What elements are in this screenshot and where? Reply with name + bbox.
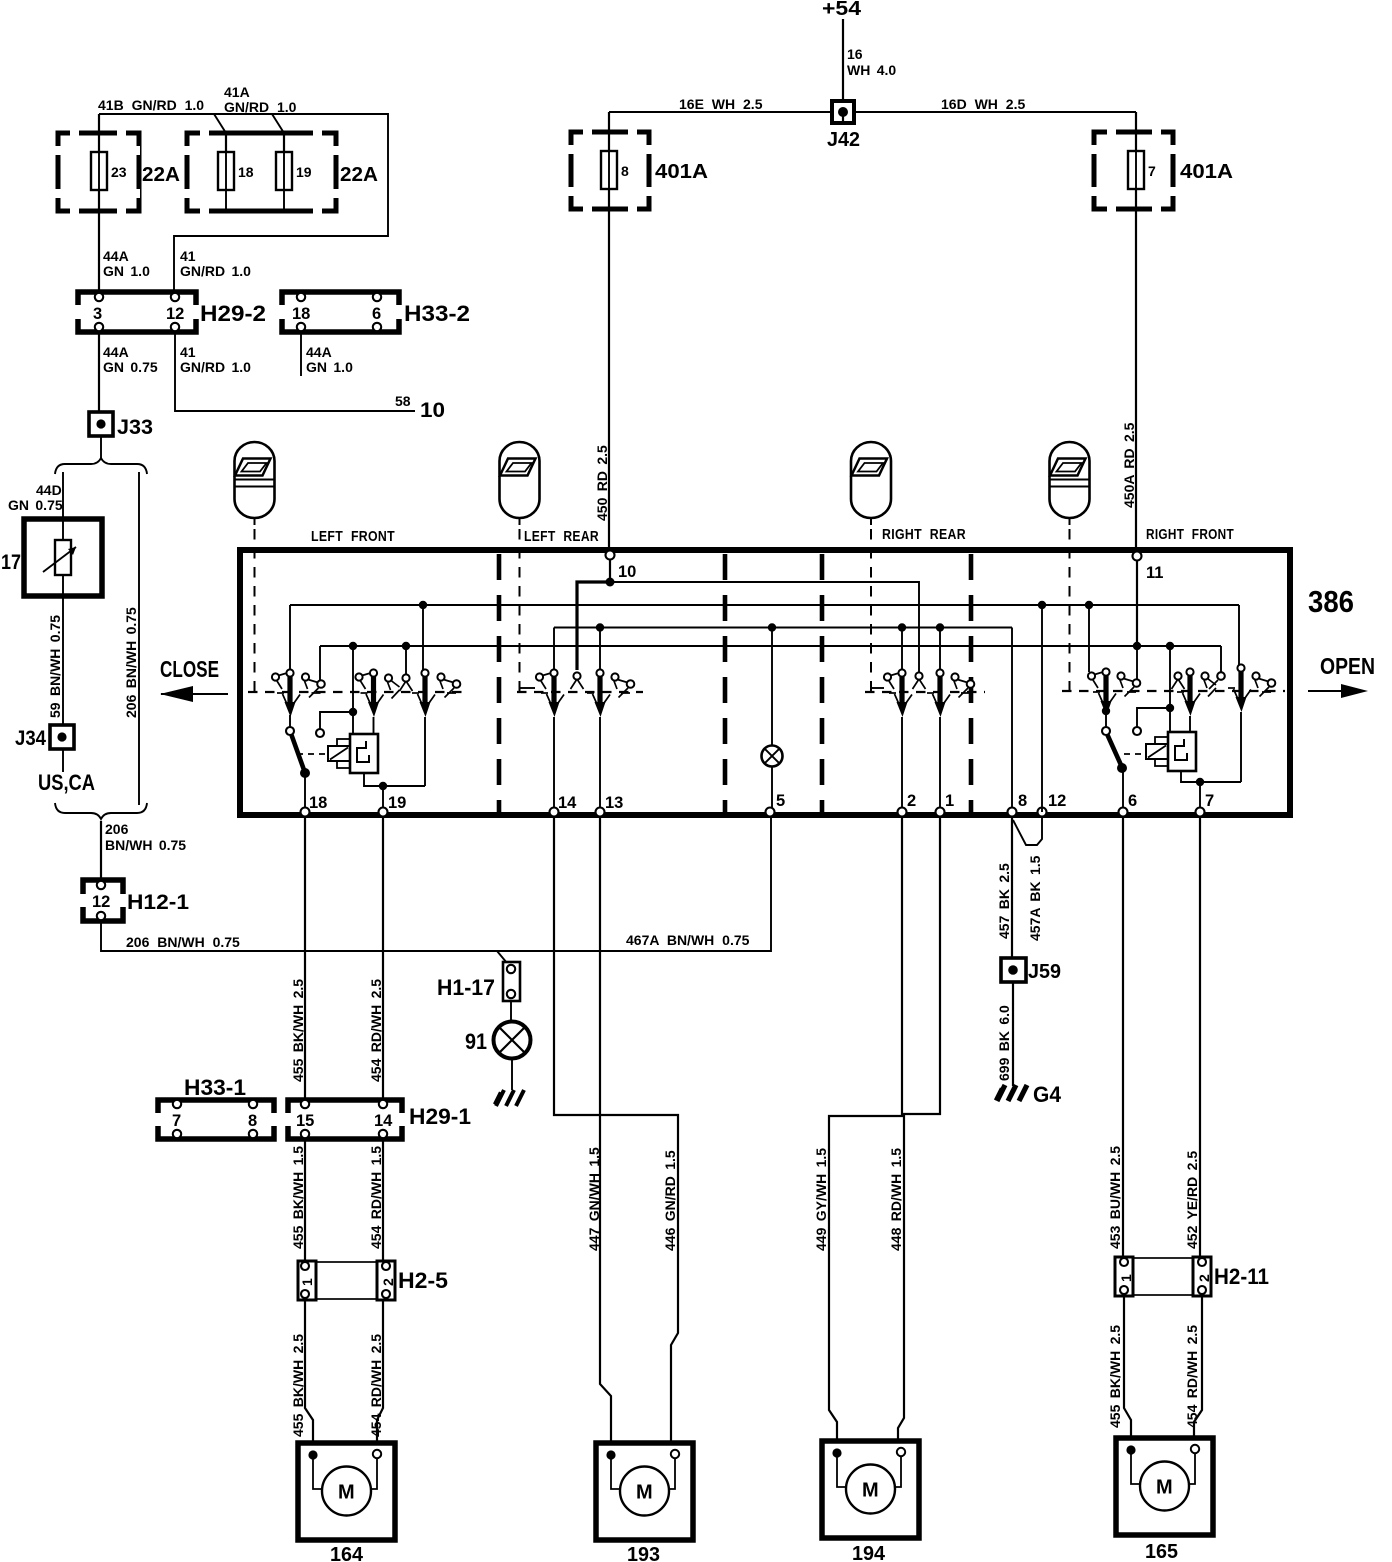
svg-text:455 BK/WH 2.5: 455 BK/WH 2.5 (1107, 1325, 1123, 1428)
svg-text:5: 5 (776, 792, 785, 810)
svg-text:18: 18 (309, 794, 327, 812)
svg-text:41B GN/RD 1.0: 41B GN/RD 1.0 (98, 97, 204, 113)
svg-text:17: 17 (1, 551, 21, 574)
svg-text:US,CA: US,CA (38, 770, 95, 795)
svg-text:19: 19 (388, 794, 406, 812)
svg-text:GN/RD 1.0: GN/RD 1.0 (180, 263, 251, 279)
svg-text:454 RD/WH 2.5: 454 RD/WH 2.5 (368, 1334, 384, 1437)
svg-text:H2-5: H2-5 (398, 1268, 448, 1293)
svg-text:41: 41 (180, 344, 196, 360)
svg-text:446 GN/RD 1.5: 446 GN/RD 1.5 (662, 1150, 678, 1251)
svg-text:BN/WH 0.75: BN/WH 0.75 (105, 837, 186, 853)
svg-text:467A BN/WH 0.75: 467A BN/WH 0.75 (626, 932, 750, 948)
svg-text:455 BK/WH 1.5: 455 BK/WH 1.5 (290, 1146, 306, 1249)
svg-text:H29-1: H29-1 (409, 1104, 471, 1129)
svg-text:6: 6 (372, 305, 381, 323)
svg-text:454 RD/WH 2.5: 454 RD/WH 2.5 (368, 979, 384, 1082)
svg-text:GN/RD 1.0: GN/RD 1.0 (180, 359, 251, 375)
svg-text:H1-17: H1-17 (437, 975, 495, 1000)
svg-text:455 BK/WH 2.5: 455 BK/WH 2.5 (290, 979, 306, 1082)
svg-text:2: 2 (1196, 1274, 1212, 1282)
svg-text:WH 4.0: WH 4.0 (847, 62, 896, 78)
svg-text:12: 12 (1048, 792, 1066, 810)
svg-text:206 BN/WH 0.75: 206 BN/WH 0.75 (123, 607, 139, 718)
svg-text:16: 16 (847, 46, 863, 62)
svg-text:7: 7 (1205, 792, 1214, 810)
svg-text:2: 2 (380, 1278, 396, 1286)
svg-text:GN 1.0: GN 1.0 (103, 263, 150, 279)
svg-text:G4: G4 (1033, 1082, 1062, 1107)
svg-text:1: 1 (1118, 1274, 1134, 1282)
svg-text:386: 386 (1308, 584, 1354, 619)
svg-text:12: 12 (92, 893, 110, 911)
svg-text:206: 206 (105, 821, 129, 837)
svg-text:41: 41 (180, 248, 196, 264)
svg-text:J33: J33 (117, 416, 153, 439)
svg-text:193: 193 (627, 1544, 660, 1562)
svg-text:454 RD/WH 2.5: 454 RD/WH 2.5 (1184, 1325, 1200, 1428)
svg-text:18: 18 (238, 164, 254, 180)
svg-text:22A: 22A (340, 164, 378, 186)
svg-text:15: 15 (296, 1112, 314, 1130)
svg-text:448 RD/WH 1.5: 448 RD/WH 1.5 (888, 1148, 904, 1251)
svg-text:44A: 44A (103, 248, 129, 264)
svg-text:J34: J34 (15, 727, 46, 750)
svg-text:19: 19 (296, 164, 312, 180)
svg-text:10: 10 (618, 563, 636, 581)
svg-text:457 BK 2.5: 457 BK 2.5 (996, 863, 1012, 939)
svg-text:GN 0.75: GN 0.75 (103, 359, 158, 375)
svg-text:44A: 44A (103, 344, 129, 360)
svg-text:GN 0.75: GN 0.75 (8, 497, 63, 513)
svg-text:58: 58 (395, 393, 411, 409)
svg-text:453 BU/WH 2.5: 453 BU/WH 2.5 (1107, 1146, 1123, 1249)
svg-text:7: 7 (172, 1112, 181, 1130)
svg-text:CLOSE: CLOSE (160, 656, 219, 682)
svg-text:6: 6 (1128, 792, 1137, 810)
svg-text:11: 11 (1146, 564, 1163, 582)
svg-text:H33-2: H33-2 (404, 301, 470, 326)
svg-text:14: 14 (558, 794, 577, 812)
svg-text:J59: J59 (1028, 961, 1061, 983)
svg-text:23: 23 (111, 164, 127, 180)
svg-text:LEFT REAR: LEFT REAR (524, 528, 599, 545)
svg-text:454 RD/WH 1.5: 454 RD/WH 1.5 (368, 1146, 384, 1249)
svg-text:8: 8 (248, 1112, 257, 1130)
svg-text:14: 14 (374, 1112, 393, 1130)
svg-text:44D: 44D (36, 482, 62, 498)
svg-text:44A: 44A (306, 344, 332, 360)
svg-text:194: 194 (852, 1543, 886, 1562)
svg-text:59 BN/WH 0.75: 59 BN/WH 0.75 (47, 615, 63, 718)
svg-text:41A: 41A (224, 84, 250, 100)
svg-text:GN/RD 1.0: GN/RD 1.0 (224, 99, 297, 115)
svg-text:450 RD 2.5: 450 RD 2.5 (594, 445, 610, 521)
svg-text:450A RD 2.5: 450A RD 2.5 (1121, 422, 1137, 508)
svg-text:LEFT FRONT: LEFT FRONT (311, 528, 395, 545)
svg-text:GN 1.0: GN 1.0 (306, 359, 353, 375)
svg-text:457A BK 1.5: 457A BK 1.5 (1027, 855, 1043, 941)
svg-text:452 YE/RD 2.5: 452 YE/RD 2.5 (1184, 1151, 1200, 1249)
svg-text:13: 13 (605, 794, 623, 812)
svg-text:2: 2 (907, 792, 916, 810)
svg-text:1: 1 (945, 792, 954, 810)
svg-text:8: 8 (621, 163, 629, 179)
svg-text:3: 3 (93, 305, 102, 323)
svg-text:RIGHT FRONT: RIGHT FRONT (1146, 526, 1234, 543)
svg-text:RIGHT REAR: RIGHT REAR (882, 526, 966, 543)
svg-text:H29-2: H29-2 (200, 301, 266, 326)
svg-text:447 GN/WH 1.5: 447 GN/WH 1.5 (586, 1147, 602, 1251)
svg-text:H2-11: H2-11 (1214, 1264, 1269, 1289)
svg-text:699 BK 6.0: 699 BK 6.0 (996, 1005, 1012, 1081)
svg-text:12: 12 (166, 305, 184, 323)
svg-text:H12-1: H12-1 (127, 891, 189, 914)
svg-text:22A: 22A (142, 164, 180, 186)
svg-text:165: 165 (1145, 1541, 1178, 1562)
svg-text:455 BK/WH 2.5: 455 BK/WH 2.5 (290, 1334, 306, 1437)
svg-text:401A: 401A (1180, 161, 1233, 183)
svg-text:401A: 401A (655, 161, 708, 183)
svg-text:8: 8 (1018, 792, 1027, 810)
svg-text:H33-1: H33-1 (184, 1075, 246, 1100)
svg-text:18: 18 (292, 305, 310, 323)
svg-text:+54: +54 (822, 0, 862, 20)
svg-text:16D WH 2.5: 16D WH 2.5 (941, 96, 1025, 112)
svg-text:OPEN: OPEN (1320, 653, 1375, 679)
svg-text:16E WH 2.5: 16E WH 2.5 (679, 96, 763, 112)
svg-text:206 BN/WH 0.75: 206 BN/WH 0.75 (126, 934, 240, 950)
svg-text:10: 10 (420, 399, 445, 422)
svg-text:7: 7 (1148, 163, 1156, 179)
svg-text:449 GY/WH 1.5: 449 GY/WH 1.5 (813, 1148, 829, 1251)
svg-text:1: 1 (299, 1278, 315, 1286)
svg-text:J42: J42 (827, 129, 860, 151)
svg-text:91: 91 (465, 1029, 487, 1054)
svg-text:164: 164 (330, 1544, 364, 1562)
